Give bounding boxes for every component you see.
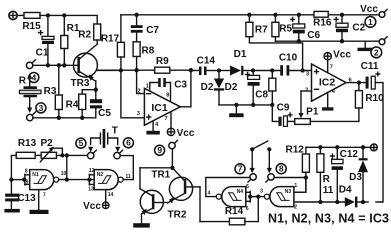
svg-text:D2: D2 [225, 82, 238, 93]
svg-text:C5: C5 [98, 108, 111, 119]
terminal 8 [266, 174, 274, 182]
junction [297, 13, 301, 17]
junction [57, 116, 61, 120]
wire IC2 pin2 [301, 90, 312, 92]
junction [65, 177, 69, 181]
wire R17 node down to IC1 pin3 [121, 70, 144, 117]
wire TR1 base down to R14 [199, 187, 201, 222]
svg-text:12: 12 [89, 168, 95, 174]
svg-text:R10: R10 [365, 93, 384, 104]
svg-text:R9: R9 [156, 56, 169, 67]
resistor R14 [200, 197, 258, 225]
svg-text:7: 7 [238, 164, 243, 174]
svg-text:4: 4 [208, 190, 211, 196]
diode D4 [339, 184, 368, 207]
terminal 7 [248, 174, 256, 182]
svg-text:C11: C11 [361, 61, 379, 72]
svg-text:C10: C10 [279, 52, 298, 63]
capacitor C5 [90, 99, 111, 119]
junction [62, 63, 66, 67]
wire [170, 69, 191, 71]
junction [251, 68, 255, 72]
svg-text:Vcc: Vcc [83, 201, 101, 212]
resistor R7 [246, 15, 303, 71]
junction [46, 63, 50, 67]
svg-text:TR2: TR2 [168, 210, 187, 221]
svg-text:3: 3 [137, 111, 140, 117]
junction [340, 13, 344, 17]
svg-text:C9: C9 [277, 103, 290, 114]
N1 pin7 ground [30, 190, 49, 214]
junction [80, 116, 84, 120]
svg-text:N1: N1 [32, 172, 39, 178]
capacitor C3 [150, 78, 188, 101]
svg-text:R8: R8 [142, 46, 155, 57]
transistor TR3 [71, 44, 98, 89]
junction [247, 13, 251, 17]
junction [318, 145, 322, 149]
svg-text:6: 6 [126, 138, 131, 148]
svg-text:P1: P1 [306, 106, 319, 117]
resistor R9 [155, 56, 170, 73]
junction [62, 13, 66, 17]
capacitor C8 [246, 71, 269, 105]
junction [87, 177, 91, 181]
wire rail3 [306, 146, 371, 148]
wire TR3 emitter [95, 81, 97, 99]
wire N1 out to N2 in [59, 179, 94, 181]
gate N4 [208, 184, 251, 212]
junction [270, 103, 274, 107]
svg-text:C2: C2 [352, 22, 365, 33]
capacitor C13 [4, 180, 36, 213]
node 3 [36, 103, 46, 113]
wire IC1 output [180, 70, 191, 107]
diode D1 [219, 49, 253, 75]
svg-text:9: 9 [157, 145, 162, 155]
transistor TR2 [140, 189, 187, 221]
capacitor C14 [191, 56, 219, 75]
svg-text:1: 1 [146, 84, 149, 90]
terminal 5 [88, 150, 97, 159]
junction [134, 13, 138, 17]
gate N3 [260, 183, 297, 211]
terminal 1 [360, 4, 387, 17]
wire TR2 collector drop [139, 168, 141, 189]
op-amp IC2 [305, 64, 351, 101]
junction [234, 103, 238, 107]
capacitor C6 [291, 15, 321, 41]
switch S1 [250, 141, 272, 173]
svg-text:T: T [112, 126, 118, 137]
svg-text:3: 3 [306, 72, 309, 78]
svg-text:D2: D2 [201, 82, 214, 93]
wire [40, 15, 97, 24]
svg-text:R5: R5 [279, 24, 292, 35]
potentiometer P2 [35, 138, 62, 162]
svg-text:1: 1 [368, 17, 373, 27]
capacitor C7 [131, 15, 160, 42]
potentiometer P1 [295, 91, 319, 124]
wire [17, 14, 24, 16]
wire Vcc rail top [121, 14, 314, 16]
svg-text:N3: N3 [285, 189, 292, 195]
svg-text:14: 14 [108, 192, 114, 198]
op-amp IC1 [137, 84, 180, 128]
junction [300, 68, 304, 72]
wire N3 pin1 [294, 178, 306, 193]
IC1 pin7 Vcc [167, 112, 195, 139]
node 2 [371, 47, 382, 58]
ground [229, 105, 243, 117]
svg-text:C8: C8 [255, 90, 268, 101]
wire P2 node down [66, 155, 68, 179]
wire terminal9 down [171, 149, 173, 168]
svg-text:C12: C12 [340, 149, 359, 160]
svg-text:R16: R16 [313, 18, 332, 29]
resistor R12 [286, 145, 310, 193]
svg-text:N4: N4 [237, 189, 244, 195]
junction [318, 200, 322, 204]
junction [94, 88, 98, 92]
svg-text:C6: C6 [307, 30, 320, 41]
resistor R3 [44, 65, 63, 118]
svg-text:Vcc: Vcc [177, 128, 195, 139]
svg-text:D1: D1 [234, 49, 247, 60]
svg-text:IC1: IC1 [151, 102, 168, 114]
resistor R16 [313, 11, 332, 28]
svg-text:TR1: TR1 [151, 170, 170, 181]
junction [170, 166, 174, 170]
wire feedback [98, 69, 155, 71]
svg-text:TR3: TR3 [71, 78, 90, 89]
svg-text:3: 3 [39, 103, 44, 113]
svg-text:C1: C1 [36, 48, 49, 59]
svg-text:R: R [19, 76, 27, 87]
terminal 3 [27, 112, 36, 121]
junction [270, 68, 274, 72]
wire rail4 bottom [294, 201, 345, 203]
node 5 [76, 138, 86, 148]
svg-text:N2: N2 [97, 172, 104, 178]
resistor R11 [317, 147, 334, 202]
svg-text:2: 2 [137, 89, 140, 95]
junction [57, 63, 61, 67]
svg-text:3: 3 [260, 189, 263, 195]
wire emitter network [82, 89, 96, 91]
junction [119, 68, 123, 72]
svg-text:8: 8 [279, 164, 284, 174]
svg-text:C14: C14 [197, 56, 216, 67]
svg-text:R12: R12 [286, 145, 305, 156]
resistor R4 [66, 90, 86, 118]
gate N2 [88, 168, 131, 198]
svg-text:5: 5 [246, 184, 249, 190]
IC1 pin4 ground [146, 121, 159, 135]
wire N2 out to terminal 6 [120, 156, 133, 180]
resistor R15 [22, 13, 41, 33]
junction [335, 200, 339, 204]
junction [248, 194, 252, 198]
wire C11 output down [375, 83, 383, 202]
wire [253, 70, 280, 72]
svg-text:IC2: IC2 [319, 77, 336, 89]
resistor R10 [310, 83, 384, 122]
svg-text:Vcc: Vcc [360, 4, 378, 15]
wire ground run [219, 104, 272, 106]
junction [340, 39, 344, 43]
wire base [33, 64, 78, 66]
svg-text:7: 7 [164, 116, 167, 122]
wire N1 input tap [11, 179, 25, 181]
svg-text:R2: R2 [78, 30, 91, 41]
svg-text:R14: R14 [225, 206, 244, 217]
node 4 [29, 72, 39, 82]
wire bottom rail left [33, 117, 96, 119]
junction [22, 177, 26, 181]
transducer T [88, 126, 120, 153]
svg-text:R17: R17 [101, 34, 120, 45]
junction [335, 145, 339, 149]
transistor TR1 [151, 168, 200, 204]
IC2 pin7 Vcc [324, 49, 351, 72]
junction [361, 200, 365, 204]
wire IC1 pin2 [137, 70, 145, 93]
svg-text:2: 2 [294, 205, 297, 211]
wire terminal7 to N4 output [206, 178, 250, 197]
ground rail2 [358, 41, 373, 51]
diode D2 [201, 71, 238, 105]
wire [57, 154, 88, 156]
node 6 [123, 138, 133, 148]
junction [189, 68, 193, 72]
junction [357, 80, 361, 84]
svg-text:R7: R7 [255, 24, 268, 35]
terminal 2 [379, 37, 387, 45]
capacitor C2 [334, 15, 365, 41]
junction [9, 177, 13, 181]
node 1 [365, 17, 376, 28]
svg-text:Vcc: Vcc [333, 49, 351, 60]
svg-text:4: 4 [32, 72, 37, 82]
junction [251, 103, 255, 107]
capacitor C12 [331, 147, 359, 202]
svg-text:D3: D3 [349, 172, 362, 183]
IC2 pin4 ground [322, 92, 333, 110]
svg-text:R15: R15 [22, 21, 41, 32]
svg-text:P2: P2 [40, 138, 53, 149]
wire terminal8 to R12/N3 [274, 177, 306, 179]
gate N1 [25, 168, 67, 198]
svg-text:1: 1 [294, 183, 297, 189]
junction [297, 39, 301, 43]
wire collectors [140, 167, 172, 169]
node 8 [276, 164, 286, 174]
svg-text:7: 7 [43, 193, 46, 199]
wire [11, 155, 16, 179]
svg-text:R4: R4 [66, 100, 79, 111]
svg-text:R3: R3 [44, 86, 57, 97]
junction [65, 153, 69, 157]
resistor R2 [78, 24, 100, 44]
terminal 4 [26, 60, 35, 69]
svg-text:R13: R13 [18, 138, 37, 149]
resistor R8 [133, 42, 155, 70]
junction [217, 68, 221, 72]
svg-text:C13: C13 [17, 193, 36, 204]
TR2 emitter ground [133, 214, 150, 228]
capacitor C10 [279, 52, 312, 75]
wire rail2 [275, 40, 379, 42]
svg-text:C3: C3 [174, 79, 187, 90]
resistor R5 [272, 15, 293, 41]
capacitor C1 [36, 15, 54, 65]
junction [273, 13, 277, 17]
junction [134, 68, 138, 72]
junction [304, 175, 308, 179]
node 7 [235, 164, 245, 174]
svg-text:9: 9 [26, 180, 29, 186]
battery + terminal [9, 11, 17, 19]
svg-text:7: 7 [330, 64, 333, 70]
resistor R17 [101, 15, 125, 71]
terminal supply bottom right [371, 144, 378, 151]
svg-text:11: 11 [323, 185, 334, 196]
wire IC2 output [346, 82, 366, 84]
svg-text:10: 10 [61, 171, 67, 177]
microphone R [19, 73, 41, 113]
junction [60, 153, 64, 157]
wire TR3 collector to R17 [98, 69, 121, 71]
svg-text:6: 6 [246, 206, 249, 212]
svg-text:8: 8 [25, 168, 28, 174]
junction [256, 194, 260, 198]
wire N4 in to N3 out [250, 196, 264, 198]
terminal 9 [169, 140, 178, 148]
resistor R13 [16, 138, 36, 158]
node 9 [155, 145, 165, 155]
wire [328, 14, 379, 16]
svg-text:2: 2 [374, 47, 379, 57]
resistor R1 [61, 15, 80, 65]
diode D3 [349, 147, 368, 202]
N2 pin14 Vcc [83, 190, 109, 213]
svg-text:N1, N2, N3, N4 = IC3: N1, N2, N3, N4 = IC3 [268, 212, 389, 226]
junction [361, 145, 365, 149]
resistor R6 [269, 71, 279, 122]
svg-text:R: R [323, 174, 331, 185]
terminal 6 [114, 150, 123, 159]
capacitor C11 [361, 61, 380, 89]
svg-text:13: 13 [88, 186, 94, 192]
capacitor C9 [277, 103, 295, 127]
svg-text:C7: C7 [146, 25, 159, 36]
svg-text:D4: D4 [339, 184, 352, 195]
junction [46, 13, 50, 17]
svg-text:5: 5 [79, 138, 84, 148]
svg-text:8: 8 [166, 92, 169, 98]
